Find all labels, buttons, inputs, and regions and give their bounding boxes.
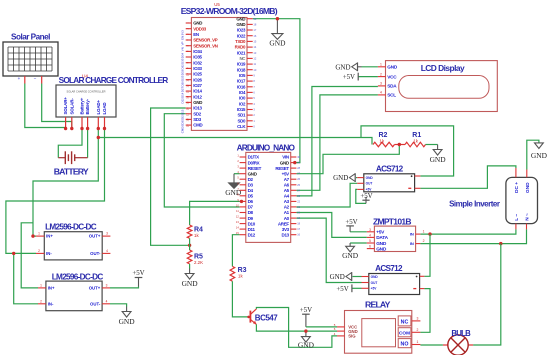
junction at controller pin LOAD <box>103 127 106 130</box>
svg-text:IO23: IO23 <box>237 28 246 33</box>
ACS712 U7 pin GND <box>362 276 369 278</box>
svg-text:L ~: L ~ <box>514 214 520 221</box>
svg-text:EN: EN <box>181 36 185 40</box>
wire LOAD+ rail to R2 <box>98 138 372 145</box>
svg-text:IN: IN <box>410 241 414 246</box>
ESP32 left pin 6 IO34 <box>186 50 192 52</box>
svg-text:D32: D32 <box>181 64 185 70</box>
ESP32 left pin 4 SENSOR_VP <box>186 39 192 41</box>
svg-text:OUT: OUT <box>366 182 373 186</box>
LM2596 U1 pin 3 OUT+ <box>102 235 110 237</box>
ground at ESP32 GND net <box>276 19 278 34</box>
svg-text:1k: 1k <box>194 233 199 238</box>
LCD pin 2 VCC <box>378 76 386 78</box>
LM2596 U2 pin 2 IN- <box>38 303 46 305</box>
svg-text:+5V: +5V <box>132 270 144 277</box>
svg-text:D33: D33 <box>181 70 185 76</box>
svg-text:ZMPT101B: ZMPT101B <box>373 217 411 227</box>
svg-text:GND: GND <box>335 63 350 71</box>
svg-text:D2: D2 <box>248 177 254 182</box>
svg-text:D3: D3 <box>248 183 254 188</box>
svg-text:GND: GND <box>525 182 531 193</box>
svg-text:IO4: IO4 <box>239 90 246 95</box>
svg-text:ESP32-WROOM-32D(16MB): ESP32-WROOM-32D(16MB) <box>181 6 278 16</box>
wire branch LOAD- to LM2596 U2 IN- <box>14 253 38 303</box>
svg-text:CLK: CLK <box>237 124 246 129</box>
svg-text:A5: A5 <box>284 188 290 193</box>
LM2596 U1 pin 2 IN- <box>36 252 44 254</box>
LCD screen area <box>399 76 489 99</box>
svg-text:SD1: SD1 <box>238 113 246 118</box>
svg-text:IO18: IO18 <box>237 67 246 72</box>
junction battery+ rail at LOAD+ <box>97 136 100 139</box>
svg-text:RXD0: RXD0 <box>235 45 246 50</box>
svg-text:+5V: +5V <box>371 287 378 291</box>
Arduino right pin 26 A7 <box>291 178 297 180</box>
svg-text:CMD: CMD <box>193 123 202 128</box>
svg-text:2: 2 <box>38 249 40 253</box>
ACS712 U7 pin +5V <box>362 287 369 289</box>
svg-text:TXD0: TXD0 <box>235 39 246 44</box>
svg-text:GND: GND <box>333 174 348 182</box>
svg-text:GND: GND <box>298 341 315 350</box>
wire Arduino D6 to R4 <box>190 201 240 225</box>
svg-text:N ~: N ~ <box>525 213 531 221</box>
resistor R5 2.2K <box>187 250 192 264</box>
ACS712 U7 pin IP- <box>420 288 425 290</box>
svg-text:+5V: +5V <box>366 188 373 192</box>
ESP32 left pin 1 GND <box>186 22 192 24</box>
solar panel pin - <box>41 76 43 84</box>
svg-text:IO12: IO12 <box>193 94 202 99</box>
svg-text:NC: NC <box>401 319 409 325</box>
Arduino Nano U3 <box>246 152 291 242</box>
svg-text:SD2: SD2 <box>181 115 185 121</box>
ESP32 left pin 2 VDD33 <box>186 28 192 30</box>
wire solar panel - to controller SOLAR- <box>42 84 72 129</box>
svg-text:D5: D5 <box>248 194 254 199</box>
svg-text:+5V: +5V <box>360 193 372 200</box>
svg-text:GND: GND <box>371 275 379 279</box>
wire junction down to ACS712 U7 IP+ <box>424 234 430 276</box>
svg-text:1: 1 <box>423 230 425 234</box>
svg-text:VP: VP <box>181 41 185 45</box>
svg-text:3V3: 3V3 <box>282 227 290 232</box>
ESP32 left pin 11 IO26 <box>186 79 192 81</box>
svg-text:GND: GND <box>330 273 345 281</box>
svg-text:GND: GND <box>236 16 245 21</box>
LCD display U8 <box>386 61 498 112</box>
LM2596 U1 pin 1 IN+ <box>36 235 44 237</box>
junction at controller pin LOAD+ <box>97 127 100 130</box>
wire ESP32 GND pin to junction and down to Arduino GND <box>253 19 300 163</box>
svg-text:2: 2 <box>417 328 419 332</box>
LM2596 U2 pin 3 OUT+ <box>102 287 110 289</box>
wire ZMPT101B GND pin to ground <box>350 242 367 244</box>
svg-text:IO32: IO32 <box>193 60 202 65</box>
wire LM2596 U2 OUT- to ground <box>110 304 127 307</box>
svg-text:3: 3 <box>380 82 382 86</box>
svg-text:IO16: IO16 <box>237 84 246 89</box>
solar panel pin + <box>24 76 26 84</box>
wire controller Battery- to battery <box>87 129 89 158</box>
ACS712 U6 pin +5V <box>357 188 364 190</box>
svg-text:1: 1 <box>417 340 419 344</box>
controller pin LOAD <box>104 117 106 129</box>
wire ZMPT101B IN2 to inverter N <box>420 229 526 243</box>
Arduino right pin 22 A3 <box>291 200 297 202</box>
svg-text:SOLAR CHARGE CONTROLLER: SOLAR CHARGE CONTROLLER <box>66 90 105 94</box>
current sensor ACS712 U6 <box>364 174 415 192</box>
ESP32 right pin 38 GND <box>247 18 253 20</box>
svg-text:IO26: IO26 <box>193 77 202 82</box>
svg-text:IO27: IO27 <box>193 83 202 88</box>
wire R4 to R5 <box>189 238 191 250</box>
svg-text:IN-: IN- <box>46 251 52 256</box>
svg-text:SD0: SD0 <box>238 118 246 123</box>
svg-text:4: 4 <box>106 249 108 253</box>
bulb left lead <box>443 344 448 346</box>
svg-text:GND: GND <box>366 176 374 180</box>
svg-text:D13: D13 <box>181 109 185 115</box>
svg-text:D4: D4 <box>248 188 254 193</box>
relay contact NO <box>398 339 411 348</box>
svg-text:SOLAR-: SOLAR- <box>69 98 74 115</box>
power +5V at ACS712 U6 <box>356 189 366 203</box>
ESP32 left pin 10 IO25 <box>186 73 192 75</box>
svg-text:OUT+: OUT+ <box>89 234 101 239</box>
svg-text:GND: GND <box>225 188 242 197</box>
svg-text:Solar Panel: Solar Panel <box>11 33 50 42</box>
controller pin Battery- <box>87 117 89 129</box>
Arduino right pin 19 A0 <box>291 217 297 219</box>
svg-text:SOLAR CHARGE CONTROLLER: SOLAR CHARGE CONTROLLER <box>59 75 169 85</box>
relay pin 4 SIG <box>337 335 345 337</box>
svg-text:GND: GND <box>280 160 290 165</box>
ESP32 right pin 33 RXD0 <box>247 46 253 48</box>
ESP32 right pin 35 IO22 <box>247 35 253 37</box>
svg-text:IO5: IO5 <box>239 73 246 78</box>
svg-text:GND: GND <box>376 246 387 252</box>
svg-text:4: 4 <box>369 233 371 237</box>
svg-text:LCD Display: LCD Display <box>421 63 465 73</box>
Arduino left pin 13 D10 <box>240 223 246 225</box>
wire Arduino A5 to LCD SCL <box>296 95 378 190</box>
Arduino left pin 2 D0/RX <box>240 162 246 164</box>
svg-text:VCC: VCC <box>387 74 397 79</box>
wire R3 to BC547 base <box>232 281 249 317</box>
junction LM2596 IN- net <box>12 252 15 255</box>
ESP32 left pin 12 IO27 <box>186 84 192 86</box>
simple inverter U10 <box>506 177 538 223</box>
ESP32 right pin 23 IO2 <box>247 103 253 105</box>
wire ACS712 U6 IP- to inverter DC+ <box>420 166 516 188</box>
svg-text:IO21: IO21 <box>237 50 246 55</box>
Arduino right pin 23 A4 <box>291 195 297 197</box>
svg-text:IO35: IO35 <box>193 55 202 60</box>
wire R1 to ground <box>426 144 438 146</box>
ACS712 U6 pin IP- <box>415 187 421 189</box>
LM2596 U2 pin 4 OUT- <box>102 303 110 305</box>
svg-text:D34: D34 <box>181 53 185 59</box>
ESP32 module U5 <box>191 18 247 131</box>
svg-text:SD3: SD3 <box>193 117 201 122</box>
ACS712 U7 pin IP+ <box>420 275 425 277</box>
voltage sensor ZMPT101B U9 <box>374 226 415 251</box>
svg-text:IN+: IN+ <box>48 286 55 291</box>
svg-text:SCL: SCL <box>387 93 396 98</box>
ground at Arduino GND <box>233 174 235 183</box>
controller pin SOLAR+ <box>65 117 67 129</box>
wire BC547 emitter to relay GND <box>256 324 337 331</box>
svg-text:COM: COM <box>399 331 410 336</box>
wire ZMPT101B IN1 to inverter L <box>420 229 516 234</box>
junction Arduino GND / ESP32 GND link <box>293 161 296 164</box>
svg-text:4: 4 <box>106 299 108 303</box>
buck converter LM2596 U1 <box>44 232 102 260</box>
LCD pin 1 GND <box>378 66 386 68</box>
svg-text:BATTERY: BATTERY <box>54 167 89 177</box>
svg-text:RESET: RESET <box>275 166 289 171</box>
svg-text:GND: GND <box>119 317 136 326</box>
svg-text:DATA: DATA <box>376 235 388 241</box>
ACS712 U6 pin GND <box>357 177 364 179</box>
controller pin Battery+ <box>81 117 83 129</box>
ESP32 left pin 8 IO32 <box>186 62 192 64</box>
wire Arduino GND to ground <box>234 173 240 175</box>
wire BC547 collector to relay SIG <box>256 308 337 348</box>
relay contact NC <box>398 316 411 326</box>
wire relay NO to bulb <box>420 344 443 346</box>
svg-text:A7: A7 <box>284 177 290 182</box>
svg-text:SENSOR_VN: SENSOR_VN <box>193 43 218 48</box>
transistor Q1 BC547 <box>249 311 251 323</box>
svg-text:LM2596-DC-DC: LM2596-DC-DC <box>52 273 104 282</box>
svg-text:+5V: +5V <box>336 286 348 293</box>
svg-text:D14: D14 <box>181 92 185 98</box>
svg-text:D13: D13 <box>282 232 290 237</box>
wire LOAD- down-left to LM2596 U1 IN- <box>6 129 105 254</box>
ground at relay/emitter net <box>305 331 307 337</box>
Arduino left pin 7 D4 <box>240 189 246 191</box>
ESP32 left pin 3 EN <box>186 33 192 35</box>
ESP32 right pin 37 GND <box>247 23 253 25</box>
power +5V at LM2596 U2 output <box>138 278 140 287</box>
svg-text:GND: GND <box>387 65 398 70</box>
Arduino right pin 16 D13 <box>291 234 297 236</box>
ESP32 left pin 9 IO33 <box>186 67 192 69</box>
wire Arduino A2 to ACS712 U6 OUT <box>296 183 357 207</box>
svg-text:3: 3 <box>369 228 371 232</box>
svg-text:3V3: 3V3 <box>181 30 185 36</box>
bulb right lead <box>468 344 473 346</box>
svg-text:IN-: IN- <box>48 301 54 306</box>
svg-text:IO25: IO25 <box>193 72 202 77</box>
svg-text:IO17: IO17 <box>237 79 246 84</box>
svg-text:GND: GND <box>342 251 359 260</box>
ESP32 right pin 30 IO19 <box>247 63 253 65</box>
svg-text:RESET: RESET <box>248 166 262 171</box>
relay pin 5 VCC <box>337 326 345 328</box>
Arduino left pin 6 D3 <box>240 184 246 186</box>
ESP32 right pin 26 IO16 <box>247 86 253 88</box>
wire controller Battery+ to battery <box>58 129 82 158</box>
svg-text:IN+: IN+ <box>46 234 53 239</box>
svg-text:−: − <box>34 76 37 81</box>
svg-text:DC +: DC + <box>514 182 520 193</box>
inverter pin N <box>526 224 528 230</box>
svg-text:2.2K: 2.2K <box>194 260 203 265</box>
inverter pin GND (top) <box>526 170 528 178</box>
inverter pin L <box>515 224 517 230</box>
svg-text:1k: 1k <box>413 138 418 143</box>
svg-text:D8: D8 <box>248 210 254 215</box>
ZMPT101B pin 1 IN <box>416 233 421 235</box>
controller pin SOLAR- <box>71 117 73 129</box>
Arduino left pin 3 RESET <box>240 167 246 169</box>
junction Arduino D6 / R4 wire <box>240 200 243 203</box>
wire Arduino +5V to R2/R1 junction <box>296 145 399 174</box>
Arduino left pin 4 GND <box>240 173 246 175</box>
svg-text:A3: A3 <box>284 199 290 204</box>
ESP32 left pin 13 IO14 <box>186 90 192 92</box>
svg-text:GND: GND <box>531 151 548 160</box>
ZMPT101B pin 6 GND <box>367 248 375 250</box>
svg-text:IO19: IO19 <box>237 62 246 67</box>
svg-text:D12: D12 <box>248 232 256 237</box>
ESP32 right pin 19 CLK <box>247 126 253 128</box>
ESP32 right pin 27 IO17 <box>247 80 253 82</box>
wire battery rail to ACS712 U6 IP+ <box>361 126 454 176</box>
Arduino right pin 20 A1 <box>291 212 297 214</box>
relay contact COM <box>398 328 411 337</box>
ACS712 U7 pin OUT <box>362 282 369 284</box>
power +5V at ACS712 U7 (sideways) <box>352 287 361 289</box>
resistor R1 1k <box>405 142 426 147</box>
svg-text:ACS712: ACS712 <box>376 164 404 173</box>
svg-text:GND: GND <box>248 171 258 176</box>
ground at inverter GND <box>535 143 544 149</box>
svg-text:IO34: IO34 <box>193 49 202 54</box>
junction at controller pin Battery+ <box>80 127 83 130</box>
Arduino right pin 30 VIN <box>291 156 297 158</box>
svg-text:ARDUINO_NANO: ARDUINO_NANO <box>237 143 296 153</box>
wire R5 to ground <box>189 264 191 269</box>
ground at LCD GND pin (sideways) <box>362 66 378 68</box>
wire ESP32 IO13 to R4/R5 divider junction <box>151 108 190 245</box>
bulb LA1 <box>448 335 468 355</box>
svg-text:BC547: BC547 <box>255 313 278 322</box>
svg-text:2: 2 <box>423 239 425 243</box>
svg-text:LM2596-DC-DC: LM2596-DC-DC <box>45 222 97 231</box>
svg-text:IO14: IO14 <box>193 89 202 94</box>
power +5V at LCD VCC pin (sideways) <box>358 76 378 78</box>
svg-text:LOAD+: LOAD+ <box>96 100 101 115</box>
svg-text:3: 3 <box>417 316 419 320</box>
Arduino left pin 15 D12 <box>240 234 246 236</box>
Arduino right pin 18 AREF <box>291 223 297 225</box>
Arduino right pin 17 3V3 <box>291 228 297 230</box>
power +5V at ZMPT101B <box>350 231 367 233</box>
ESP32 left pin 17 SD2 <box>186 113 192 115</box>
svg-text:IO33: IO33 <box>193 66 202 71</box>
svg-text:D9: D9 <box>248 216 254 221</box>
svg-text:D6: D6 <box>248 199 254 204</box>
wire Arduino A0 to ACS712 U7 OUT <box>296 218 361 282</box>
svg-text:1: 1 <box>380 63 382 67</box>
ESP32 right pin 22 IO15 <box>247 109 253 111</box>
junction ESP32 GND wire <box>276 17 279 20</box>
solar charge controller U4 <box>56 85 116 117</box>
svg-text:Battery-: Battery- <box>85 98 90 114</box>
svg-text:Battery+: Battery+ <box>80 97 85 114</box>
svg-text:1k: 1k <box>238 274 243 279</box>
Arduino right pin 27 +5V <box>291 173 297 175</box>
wire junction down to bulb <box>473 244 501 345</box>
svg-text:SENSOR_VP: SENSOR_VP <box>193 38 218 43</box>
svg-text:IO0: IO0 <box>239 96 246 101</box>
svg-text:+5V: +5V <box>300 307 312 314</box>
power +5V to relay VCC <box>305 314 307 327</box>
wire ACS712 U7 IP- down to relay COM <box>420 289 430 333</box>
ground at ZMPT101B <box>349 243 351 246</box>
svg-text:OUT+: OUT+ <box>89 286 101 291</box>
ESP32 right pin 21 SD1 <box>247 114 253 116</box>
relay coil box <box>362 319 396 347</box>
svg-text:SOLAR+: SOLAR+ <box>63 97 68 115</box>
ESP32 right pin 20 SD0 <box>247 120 253 122</box>
svg-text:1k: 1k <box>380 138 385 143</box>
svg-text:SDA: SDA <box>387 84 397 89</box>
svg-text:1: 1 <box>38 232 40 236</box>
ESP32 left pin 19 CMD <box>186 124 192 126</box>
wire branch LOAD+ to LM2596 U2 IN+ <box>21 223 38 288</box>
Arduino left pin 5 D2 <box>240 178 246 180</box>
inverter pin DC+ <box>515 168 517 177</box>
Arduino left pin 9 D6 <box>240 200 246 202</box>
relay U11 <box>345 311 412 354</box>
svg-text:+: + <box>18 76 21 81</box>
ESP32 right pin 32 IO21 <box>247 52 253 54</box>
svg-text:+5V: +5V <box>345 219 357 226</box>
svg-text:SD2: SD2 <box>193 111 201 116</box>
current sensor ACS712 U7 <box>369 274 420 295</box>
ZMPT101B pin 2 IN <box>416 243 421 245</box>
resistor R4 1k <box>187 225 192 238</box>
ground at LM2596 U2 OUT- <box>126 307 128 312</box>
svg-text:IO15: IO15 <box>237 107 246 112</box>
junction emitter/ground <box>304 329 307 332</box>
battery B1 <box>58 157 65 159</box>
ESP32 left pin 16 IO13 <box>186 107 192 109</box>
Arduino right pin 28 RESET <box>291 167 297 169</box>
wire inverter GND pin to ground <box>527 140 539 169</box>
ZMPT101B pin 4 DATA <box>367 236 375 238</box>
svg-text:A2: A2 <box>284 205 290 210</box>
svg-text:RELAY: RELAY <box>365 299 391 309</box>
Arduino right pin 25 A6 <box>291 184 297 186</box>
svg-text:D1/TX: D1/TX <box>248 155 260 160</box>
svg-text:OUT-: OUT- <box>90 301 101 306</box>
junction R2/R1 <box>395 144 406 146</box>
controller pin LOAD+ <box>97 117 99 129</box>
svg-text:ACS712: ACS712 <box>375 264 403 273</box>
buck converter LM2596 U2 <box>46 281 102 311</box>
Arduino right pin 24 A5 <box>291 189 297 191</box>
junction R4/R5 divider <box>188 244 191 247</box>
wire Arduino A4 to LCD SDA <box>296 87 378 196</box>
svg-text:GND: GND <box>269 39 286 48</box>
